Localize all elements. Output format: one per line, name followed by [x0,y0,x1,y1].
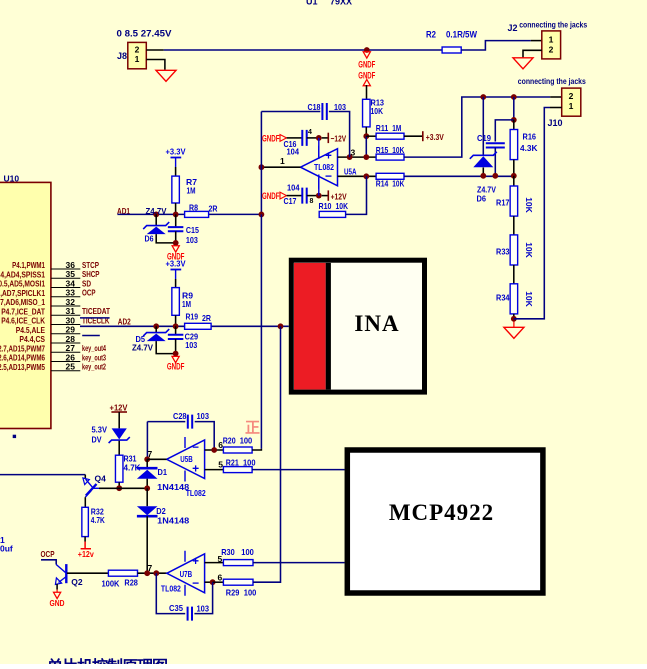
node pin6/C35 [210,579,216,585]
svg-text:10K: 10K [371,106,384,116]
amplifier block INA [291,260,424,392]
svg-text:+12v: +12v [78,549,94,559]
node top rail / R16 column [511,94,517,100]
svg-text:OCP: OCP [82,289,96,298]
svg-text:INA: INA [354,311,399,336]
svg-text:C35: C35 [169,603,183,613]
svg-text:79XX: 79XX [330,0,352,7]
node AD2/zener D5 [153,323,159,329]
node pin6/C28 [211,447,217,453]
op-amp U7B TL082 [167,554,205,593]
svg-text:J8: J8 [117,51,127,61]
svg-text:103: 103 [197,411,210,421]
node C17/+12V [316,193,322,199]
feedback column wire [260,112,262,215]
svg-text:C18: C18 [308,102,321,112]
svg-text:P4.1,PWM1: P4.1,PWM1 [12,261,45,270]
svg-text:1M: 1M [392,123,401,133]
svg-text:10K: 10K [524,242,534,258]
svg-text:OCP: OCP [41,549,55,559]
svg-text:1M: 1M [182,299,191,309]
svg-text:1N4148: 1N4148 [157,482,189,492]
svg-text:P2.5,AD13,PWM5: P2.5,AD13,PWM5 [0,363,45,372]
svg-text:4.3K: 4.3K [520,143,538,153]
svg-text:GNDF: GNDF [358,59,375,69]
svg-text:C19: C19 [477,133,491,143]
ground below J8 [156,70,176,81]
svg-text:U1: U1 [306,0,318,7]
node AD1/feedback column [259,212,265,218]
power -12V [322,137,328,139]
wire U5A output pin1 [261,166,300,168]
node D1/D2 midpoint [144,485,150,491]
power port GNDF below C15 [172,246,179,252]
svg-text:key_out4: key_out4 [82,344,106,353]
diode D2 1N4148 [146,488,148,506]
svg-text:R21: R21 [226,457,239,467]
svg-text:103: 103 [185,340,197,350]
svg-text:10K: 10K [524,291,534,307]
diode D1 1N4148 [146,459,148,467]
svg-text:1: 1 [569,101,574,111]
node pin3/C18 [347,154,353,160]
wire AD1 line [117,213,184,215]
node GNDF tap on rail [364,47,370,53]
svg-text:P4.6,ICE_CLK: P4.6,ICE_CLK [1,317,45,326]
wire R16 column top [513,97,515,120]
svg-text:D1: D1 [158,467,168,477]
svg-text:2: 2 [135,45,140,55]
resistor R30 100 [223,560,253,566]
node C35 tap [153,570,159,576]
svg-text:R2: R2 [426,30,436,40]
svg-text:J2: J2 [508,23,518,33]
wire Q4 base line [99,487,147,489]
zener diode DV 5.3V [112,428,127,439]
pin 27 P2.7,AD15,PWM7 [51,351,80,353]
resistor R13 10K [363,99,371,127]
node AD1/zener [153,212,159,218]
svg-text:TL082: TL082 [161,583,181,593]
svg-text:R28: R28 [124,578,138,588]
wire Q2 emitter to GND [56,584,58,590]
svg-text:−12V: −12V [331,134,347,144]
node R13/R11 junction [363,133,369,139]
wire J10 pin1 down to ground node [550,107,562,109]
node C29/D5 bottom [173,351,179,357]
node AD2/U7B column [278,323,284,329]
svg-text:R16: R16 [523,131,537,141]
svg-text:connecting the jacks: connecting the jacks [518,76,586,86]
svg-text:10K: 10K [336,201,349,211]
svg-text:D6: D6 [477,194,487,204]
resistor R19 2R [185,323,212,329]
svg-text:2R: 2R [202,313,211,323]
wire U5B output [147,458,166,460]
svg-text:TICEDAT: TICEDAT [82,307,110,316]
node R34 bottom / J10 return [511,316,517,322]
resistor R15 10K [376,154,404,160]
svg-text:4: 4 [308,129,312,136]
svg-text:103: 103 [186,235,198,245]
svg-text:R30: R30 [221,547,235,557]
svg-text:P4.4,CS: P4.4,CS [19,335,45,344]
svg-text:DV: DV [92,435,102,445]
wire R30 to MCP4922 [253,562,345,564]
node C16/-12V [316,135,322,141]
svg-text:R14: R14 [376,178,389,188]
wire D2 to U7B output [146,516,148,573]
wire U5B +input pin5 [205,469,224,471]
svg-text:D2: D2 [156,506,166,516]
zener diode D6 Z4.7V (right column) [482,97,484,155]
svg-text:−: − [192,576,199,590]
capacitor C18 103 [261,111,320,113]
capacitor C19 [486,143,505,147]
node D2 column / pin7 [144,570,150,576]
stray pin mark [13,435,16,438]
connector J10 [562,88,581,116]
svg-text:2: 2 [549,45,554,55]
svg-text:100: 100 [240,435,253,445]
resistor R10 10K [319,211,345,217]
svg-text:key_out2: key_out2 [82,363,106,372]
power +12V at C17 [322,195,328,197]
wire R21 to MCP4922 [252,469,344,471]
svg-text:P0.5,AD5,MOSI1: P0.5,AD5,MOSI1 [0,280,45,289]
svg-text:R20: R20 [223,435,236,445]
svg-text:C17: C17 [284,196,297,206]
transistor Q2 [56,565,65,573]
svg-text:100K: 100K [102,579,121,589]
svg-text:0uf: 0uf [0,544,13,554]
svg-text:R19: R19 [186,312,199,322]
transistor Q4 [86,479,93,487]
svg-text:104: 104 [287,182,300,192]
zener diode D5 Z4.7V [155,326,157,332]
node divider line / C19 [492,173,498,179]
pin 35 P0.4,AD4,SPISS1 [51,277,80,279]
svg-text:U10: U10 [4,173,20,183]
pin 28 P4.4,CS [51,342,80,344]
wire OCP to Q2 [41,560,56,565]
svg-text:J10: J10 [548,118,563,128]
pin 36 P4.1,PWM1 [51,268,80,270]
svg-text:P2.6,AD14,PWM6: P2.6,AD14,PWM6 [0,354,45,363]
node AD2/R9/C29 [173,323,179,329]
ground below J2 [513,58,533,69]
svg-text:1: 1 [549,35,554,45]
node R31 bottom [116,485,122,491]
node divider line / R16 [511,173,517,179]
svg-text:+3.3V: +3.3V [166,259,186,269]
pin 34 P0.5,AD5,MOSI1 [51,287,80,289]
svg-text:STCP: STCP [82,261,99,270]
pin 32 P0.7,AD6,MISO_1 [51,305,80,307]
resistor R20 100 [223,447,252,453]
wire C19 branch [495,120,514,142]
resistor R16 4.3K [513,120,515,130]
svg-text:GNDF: GNDF [262,191,280,201]
svg-text:TL082: TL082 [314,162,334,172]
svg-text:C28: C28 [173,411,187,421]
svg-text:P0.7,AD6,MISO_1: P0.7,AD6,MISO_1 [0,298,45,307]
svg-text:100: 100 [244,588,257,598]
svg-text:GND: GND [50,598,65,608]
node output feedback [259,164,265,170]
wire J8 pin1 to ground [146,60,165,70]
svg-text:103: 103 [197,604,210,614]
svg-text:10K: 10K [524,197,534,213]
pin 29 P4.5,ALE [51,333,80,335]
resistor R7 1M [172,176,180,203]
pin 26 P2.6,AD14,PWM6 [51,361,80,363]
node pin3/R13R11 [363,154,369,160]
svg-text:+12V: +12V [110,402,128,412]
svg-text:P4.5,ALE: P4.5,ALE [16,326,46,335]
resistor R32 4.7K [82,507,89,536]
svg-text:SD: SD [82,279,91,288]
resistor R34 10K [513,265,515,284]
resistor R21 100 [223,467,252,473]
svg-text:0.1R/5W: 0.1R/5W [446,30,477,40]
svg-text:25: 25 [66,362,76,372]
svg-text:1: 1 [280,156,285,166]
wire R10 right to pin2 node [346,176,367,214]
svg-text:5.3V: 5.3V [92,424,108,434]
svg-text:AD2: AD2 [118,317,131,327]
svg-text:P4.7,ICE_DAT: P4.7,ICE_DAT [1,307,45,316]
wire R28 to U7B node [138,572,167,574]
svg-text:+: + [192,462,199,476]
connector J2 [542,31,561,59]
wire Q2 base to R28 [67,572,109,574]
svg-text:正: 正 [245,420,260,437]
capacitor C15 103 [175,214,177,227]
wire U7B -input pin6 [205,581,213,583]
node U5B output pin7 [144,456,150,462]
svg-text:5: 5 [218,460,223,470]
wire U5A -input pin2 [338,175,377,177]
svg-text:Z4.7V: Z4.7V [146,206,167,216]
svg-text:104: 104 [287,146,300,156]
svg-text:单片机控制原理图: 单片机控制原理图 [47,657,167,664]
pin 25 P2.5,AD13,PWM5 [51,370,80,372]
svg-text:100: 100 [241,547,254,557]
node AD1/R7/C15 [173,212,179,218]
resistor R17 10K [513,176,515,186]
svg-text:+: + [192,556,199,568]
svg-text:2R: 2R [209,204,218,214]
wire R2 to J2 pin1 [461,41,531,50]
svg-text:GNDF: GNDF [262,134,280,144]
resistor R31 4.7K [115,455,123,482]
wire R29 to AD2 column [253,326,281,582]
svg-text:R17: R17 [496,198,510,208]
microcontroller U10 [0,182,51,428]
power +3.3V at R11 [404,135,423,137]
resistor R11 1M [366,135,376,137]
svg-text:U7B: U7B [180,569,193,579]
svg-text:1N4148: 1N4148 [157,516,189,526]
pin 30 P4.6,ICE_CLK [51,324,80,326]
svg-text:7: 7 [148,563,153,573]
DAC block MCP4922 [347,450,543,593]
resistor R2 0.1R/5W [442,47,461,53]
power +12v below R32 [84,537,86,542]
svg-text:R11: R11 [376,123,389,133]
wire Q4 collector to R32 [84,497,86,507]
resistor R8 2R [185,211,209,217]
svg-text:100: 100 [243,457,256,467]
pin 33 P0.6,AD7,SPICLK1 [51,296,80,298]
svg-text:GNDF: GNDF [167,361,185,371]
power port GNDF below C29 [172,356,179,362]
resistor R29 100 [213,581,224,583]
wire J2 pin2 to ground [523,50,542,58]
svg-text:D6: D6 [145,234,154,244]
node C15/zener bottom [173,240,179,246]
connector J8 [128,42,147,68]
svg-text:1M: 1M [187,186,196,196]
svg-text:+12V: +12V [331,191,347,201]
svg-text:Q4: Q4 [95,474,107,484]
svg-text:103: 103 [334,102,346,112]
resistor R14 10K [376,173,404,179]
svg-text:0 8.5 27.45V: 0 8.5 27.45V [117,29,172,39]
wire AD2 line [80,325,185,327]
svg-text:4.7K: 4.7K [91,515,106,525]
wire feedback column to R20 [260,214,262,448]
op-amp U5A TL082 [301,149,338,186]
svg-text:P0.6,AD7,SPICLK1: P0.6,AD7,SPICLK1 [0,289,45,298]
svg-text:8: 8 [310,198,314,205]
svg-text:C15: C15 [186,225,199,235]
svg-text:P0.4,AD4,SPISS1: P0.4,AD4,SPISS1 [0,270,45,279]
svg-text:Q2: Q2 [71,577,83,587]
wire stub pin 29 [82,335,100,337]
wire R15 to top rail [404,97,550,157]
svg-text:key_out3: key_out3 [82,353,106,362]
svg-text:10K: 10K [392,178,405,188]
node pin2/R10 [363,173,369,179]
svg-text:R10: R10 [319,201,332,211]
node divider line / zener [480,173,486,179]
svg-text:+3.3V: +3.3V [166,147,186,157]
svg-text:+3.3V: +3.3V [426,132,444,142]
ground below R34 [513,322,515,328]
capacitor C28 103 [147,421,185,423]
wire R20 to feedback column [252,449,261,450]
resistor R9 1M [172,288,180,316]
pin 31 P4.7,ICE_DAT [51,314,80,316]
capacitor C29 103 [175,326,177,335]
wire into Q4 emitter [0,474,85,476]
op-amp U5B TL082 [167,440,205,479]
svg-text:R33: R33 [496,247,510,257]
node top rail / zener column [480,94,486,100]
svg-text:Z4.7V: Z4.7V [132,342,153,352]
power port GND [56,590,58,593]
svg-text:R8: R8 [189,203,198,213]
svg-text:R29: R29 [226,588,240,598]
svg-text:7: 7 [148,449,153,459]
svg-text:connecting the jacks: connecting the jacks [519,20,587,30]
node R16/C19 tap [511,117,517,123]
svg-text:10K: 10K [392,145,405,155]
svg-text:U5B: U5B [180,454,193,464]
power port GNDF upper [363,52,370,58]
wire J8 pin2 to R2 [146,49,164,51]
svg-text:1: 1 [135,54,140,64]
resistor R33 10K [513,216,515,235]
svg-text:MCP4922: MCP4922 [389,500,494,525]
svg-text:U5A: U5A [344,166,357,176]
svg-text:SHCP: SHCP [82,270,100,279]
svg-text:−: − [192,442,199,454]
wire U5A +input pin3 [338,156,377,158]
wire stub pin 31 [80,317,110,319]
svg-text:6: 6 [218,573,223,583]
resistor R28 100K [108,570,137,576]
wire U7B +input pin5 [205,562,224,564]
wire U5B -input pin6 [205,449,224,451]
svg-text:2: 2 [569,91,574,101]
svg-text:R15: R15 [376,145,389,155]
svg-text:P2.7,AD15,PWM7: P2.7,AD15,PWM7 [0,344,45,353]
svg-text:R34: R34 [496,293,510,303]
capacitor C35 103 [156,573,185,613]
wire R14 to divider line [404,175,514,177]
